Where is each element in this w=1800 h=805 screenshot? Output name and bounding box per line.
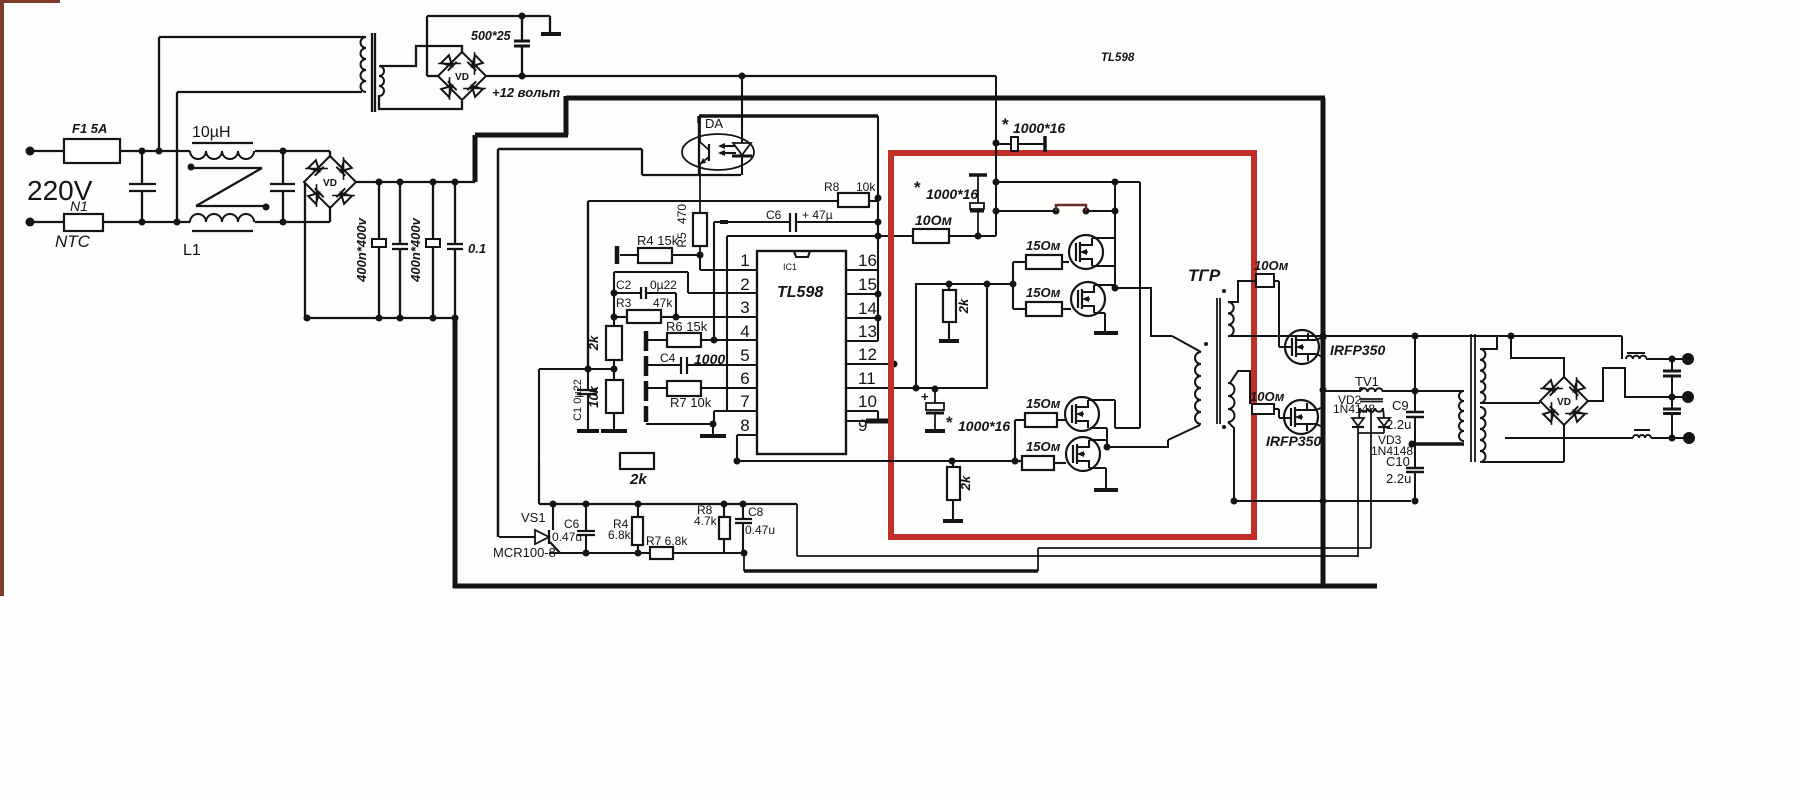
svg-text:2k: 2k — [629, 471, 647, 488]
svg-text:C9: C9 — [1392, 398, 1409, 413]
svg-text:IRFP350: IRFP350 — [1330, 342, 1385, 358]
svg-text:IRFP350: IRFP350 — [1266, 433, 1321, 449]
svg-text:8: 8 — [740, 416, 749, 435]
svg-text:VS1: VS1 — [521, 510, 546, 525]
svg-text:16: 16 — [858, 251, 877, 270]
svg-text:C6: C6 — [564, 517, 580, 531]
svg-text:TV1: TV1 — [1355, 374, 1379, 389]
svg-text:0.47u: 0.47u — [552, 530, 582, 544]
svg-text:400n*400v: 400n*400v — [408, 217, 423, 282]
svg-text:15Ом: 15Ом — [1026, 396, 1061, 411]
svg-text:VD: VD — [455, 72, 469, 83]
svg-text:3: 3 — [740, 298, 749, 317]
svg-text:1000*16: 1000*16 — [926, 186, 978, 202]
svg-text:R3: R3 — [616, 296, 632, 310]
svg-text:10µH: 10µH — [192, 124, 231, 141]
svg-text:+12 вольт: +12 вольт — [492, 85, 561, 100]
svg-text:15: 15 — [858, 275, 877, 294]
svg-text:15Ом: 15Ом — [1026, 238, 1061, 253]
svg-text:VD: VD — [1557, 397, 1571, 408]
svg-text:*: * — [914, 178, 921, 197]
svg-text:*: * — [1002, 115, 1009, 134]
svg-text:VD: VD — [323, 178, 337, 189]
svg-text:2k: 2k — [956, 298, 971, 314]
svg-text:TL598: TL598 — [777, 284, 823, 301]
svg-text:0µ22: 0µ22 — [650, 278, 677, 292]
svg-text:11: 11 — [858, 369, 876, 388]
svg-text:6.8k: 6.8k — [608, 528, 632, 542]
svg-text:2k: 2k — [958, 475, 973, 491]
svg-text:+ 47µ: + 47µ — [802, 208, 833, 222]
svg-text:10: 10 — [858, 392, 877, 411]
svg-text:DA: DA — [705, 116, 723, 131]
svg-text:1000: 1000 — [694, 351, 725, 367]
svg-text:2.2u: 2.2u — [1386, 471, 1411, 486]
svg-text:12: 12 — [858, 345, 877, 364]
svg-text:10Ом: 10Ом — [1250, 389, 1285, 404]
svg-text:TL598: TL598 — [1101, 52, 1135, 64]
svg-text:400n*400v: 400n*400v — [354, 217, 369, 282]
svg-text:15Ом: 15Ом — [1026, 285, 1061, 300]
svg-text:F1 5A: F1 5A — [72, 121, 107, 136]
svg-text:ТГР: ТГР — [1188, 266, 1221, 285]
svg-text:1000*16: 1000*16 — [958, 418, 1010, 434]
svg-text:R7 10k: R7 10k — [670, 395, 712, 410]
svg-text:500*25: 500*25 — [471, 29, 512, 43]
svg-text:1000*16: 1000*16 — [1013, 120, 1065, 136]
svg-text:R4 15k: R4 15k — [637, 233, 679, 248]
svg-text:10Ом: 10Ом — [1254, 258, 1289, 273]
svg-text:R6 15k: R6 15k — [666, 319, 708, 334]
svg-text:6: 6 — [740, 369, 749, 388]
svg-text:0.1: 0.1 — [468, 241, 486, 256]
svg-text:L1: L1 — [183, 242, 201, 259]
svg-text:+: + — [921, 389, 929, 404]
svg-text:C4: C4 — [660, 351, 676, 365]
svg-text:0.47u: 0.47u — [745, 523, 775, 537]
svg-text:7: 7 — [740, 392, 749, 411]
svg-text:C6: C6 — [766, 208, 782, 222]
svg-text:C8: C8 — [748, 505, 764, 519]
svg-text:2.2u: 2.2u — [1386, 417, 1411, 432]
svg-text:IC1: IC1 — [783, 262, 797, 272]
svg-text:R8: R8 — [824, 180, 840, 194]
svg-text:R5: R5 — [675, 232, 689, 248]
svg-text:MCR100-8: MCR100-8 — [493, 545, 556, 560]
svg-text:C1 0µ22: C1 0µ22 — [572, 379, 584, 421]
svg-text:470: 470 — [675, 204, 689, 224]
svg-text:NTC: NTC — [55, 232, 91, 251]
svg-text:2: 2 — [740, 275, 749, 294]
svg-text:5: 5 — [740, 346, 749, 365]
svg-text:10k: 10k — [856, 180, 876, 194]
svg-text:13: 13 — [858, 322, 877, 341]
svg-text:10Ом: 10Ом — [915, 212, 953, 228]
svg-text:14: 14 — [858, 299, 877, 318]
svg-text:N1: N1 — [70, 198, 88, 214]
svg-text:1: 1 — [740, 251, 749, 270]
svg-text:4: 4 — [740, 322, 749, 341]
svg-text:47k: 47k — [653, 296, 673, 310]
svg-text:C2: C2 — [616, 278, 632, 292]
svg-text:15Ом: 15Ом — [1026, 439, 1061, 454]
svg-text:1N4148: 1N4148 — [1333, 402, 1375, 416]
svg-text:4.7k: 4.7k — [694, 514, 718, 528]
svg-text:C10: C10 — [1386, 454, 1410, 469]
svg-text:*: * — [946, 413, 953, 432]
svg-text:R7 6.8k: R7 6.8k — [646, 534, 688, 548]
